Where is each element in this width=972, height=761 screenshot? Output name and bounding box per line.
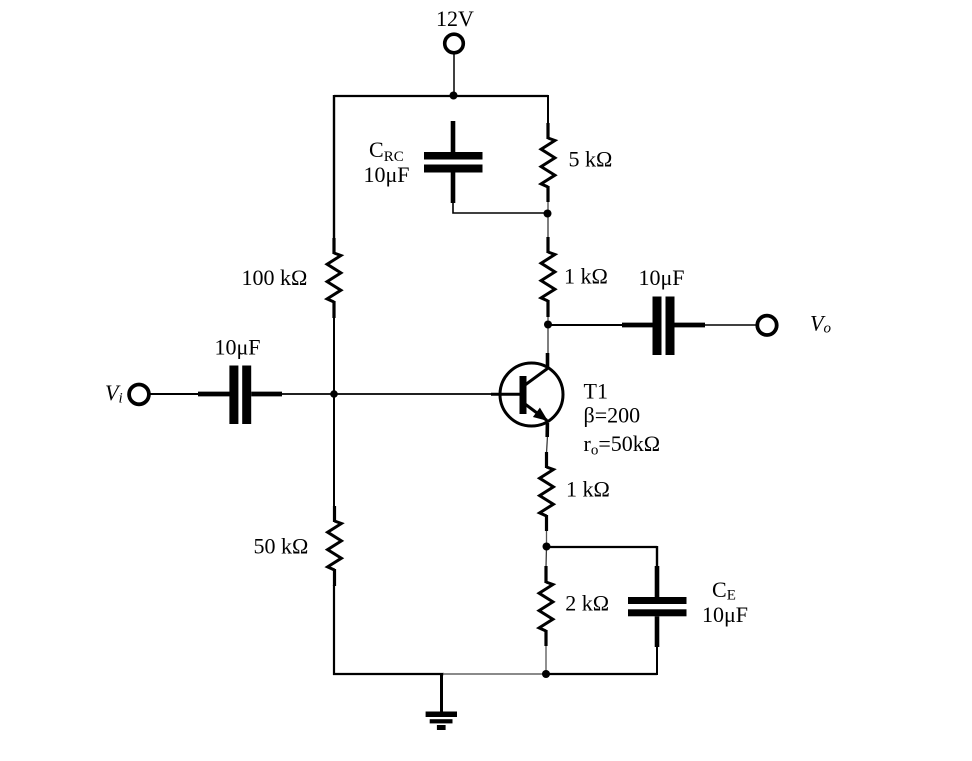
capacitor CRC (424, 121, 483, 203)
node output junction (544, 321, 552, 329)
wire base (334, 393, 492, 395)
wire right branch top (547, 95, 549, 124)
svg-text:50 kΩ: 50 kΩ (254, 533, 309, 558)
svg-text:12V: 12V (436, 6, 474, 31)
svg-text:10μF: 10μF (702, 602, 748, 627)
capacitor output 10uF (622, 297, 705, 356)
wire 5k to node (547, 201, 549, 214)
wire 2k to bottom node (545, 645, 547, 674)
svg-text:5 kΩ: 5 kΩ (569, 146, 613, 171)
svg-text:2 kΩ: 2 kΩ (565, 590, 609, 615)
svg-text:1 kΩ: 1 kΩ (566, 477, 610, 502)
wire output right (704, 324, 758, 326)
terminal 12V (445, 34, 464, 53)
node junction below 5k (544, 210, 552, 218)
node base junction (330, 390, 338, 398)
resistor 5k (541, 123, 555, 202)
wire node to 1k (547, 213, 549, 238)
svg-text:1 kΩ: 1 kΩ (564, 263, 608, 288)
resistor 100k (327, 238, 341, 318)
svg-text:T1: T1 (584, 378, 608, 403)
svg-text:100 kΩ: 100 kΩ (242, 265, 308, 290)
transistor T1 (491, 353, 563, 437)
wire CE branch lower (656, 646, 658, 675)
wire node to 2k (545, 547, 548, 567)
node junction top rail (450, 92, 458, 100)
wire emitter (547, 436, 548, 453)
resistor 50k (328, 506, 342, 586)
resistor 1k collector (541, 237, 555, 317)
wire CE branch upper (656, 546, 658, 567)
capacitor CE (628, 566, 687, 647)
wire emitter res to node (546, 530, 548, 548)
resistor 1k emitter (540, 452, 554, 531)
wire left branch upper (333, 95, 335, 239)
wire output left (548, 324, 623, 326)
ground (426, 674, 457, 730)
svg-text:10μF: 10μF (364, 162, 410, 187)
wire left branch middle (333, 317, 335, 395)
wire Vi to cap (148, 393, 199, 395)
wire bottom rail (333, 673, 444, 675)
resistor 2k (539, 566, 553, 646)
svg-text:β=200: β=200 (584, 403, 641, 428)
wire CRC bottom stub (453, 202, 547, 213)
node emitter junction (543, 543, 551, 551)
terminal Vo (757, 316, 776, 335)
wire left branch bottom (333, 585, 335, 675)
wire CE top (547, 546, 658, 548)
wire left branch lower (333, 394, 335, 507)
wire top rail (334, 95, 548, 97)
terminal Vi (129, 385, 149, 405)
node bottom junction (542, 670, 550, 678)
wire 1k to node (547, 316, 549, 326)
wire cap to base node (281, 393, 335, 395)
wire node to collector (547, 325, 549, 354)
capacitor input 10uF (198, 366, 282, 425)
wire 12V drop (453, 53, 455, 96)
svg-text:10μF: 10μF (639, 265, 685, 290)
svg-text:10μF: 10μF (215, 334, 261, 359)
